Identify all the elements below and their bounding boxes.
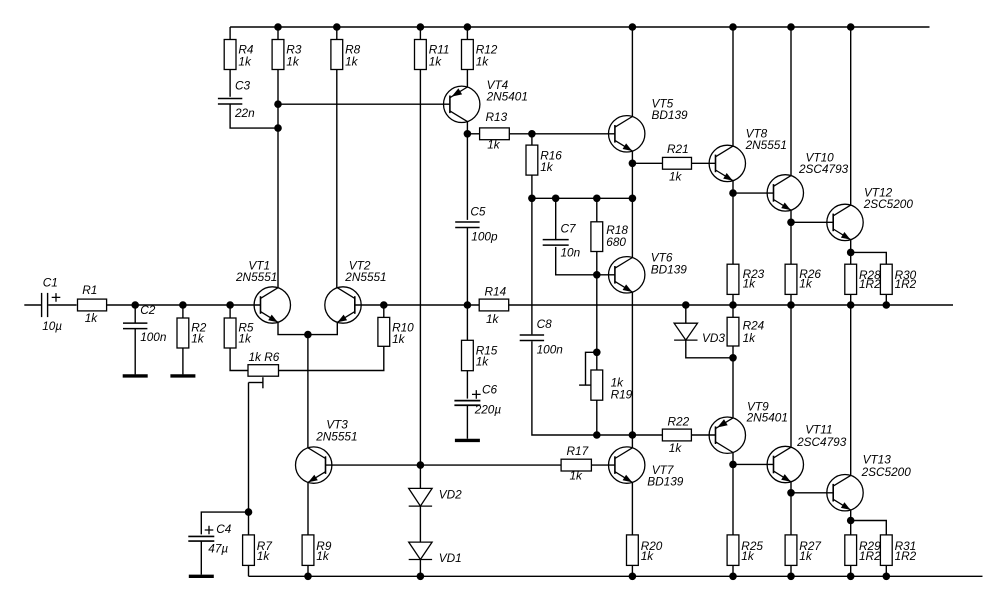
svg-text:2SC5200: 2SC5200 [861,465,912,479]
node VT8 emitter junction [729,189,737,197]
wire [277,27,279,40]
resistor R31 [880,535,916,566]
svg-text:2SC4793: 2SC4793 [798,162,849,176]
node bottom rail R27 [787,573,795,581]
svg-text:1R2: 1R2 [859,277,881,291]
wire [692,162,716,164]
diode VD1 [409,542,462,565]
node bottom rail R20 [629,573,637,581]
node VT5 emitter junction [629,160,637,168]
svg-text:1k: 1k [540,160,554,174]
wire VT8 emitter [732,181,734,193]
wire [531,198,533,334]
wire [732,305,734,317]
resistor R2 [177,318,207,348]
node C2 junction [131,301,139,309]
resistor R22 [662,414,691,455]
resistor R25 [727,535,763,566]
svg-text:1k: 1k [487,137,501,151]
capacitor C7 [543,222,581,260]
svg-text:R19: R19 [611,388,633,402]
wire [732,294,734,305]
resistor R24 [727,317,765,346]
resistor R23 [727,264,765,294]
wire bias rail [532,197,633,199]
svg-text:1k: 1k [238,332,252,346]
wire R19 wiper [586,352,597,385]
node bottom rail R9 [304,573,312,581]
resistor R7 [243,535,273,566]
wire [850,252,852,264]
node bottom rail R31 [883,573,891,581]
wire VT4 base [278,103,450,105]
svg-text:1k: 1k [257,549,271,563]
svg-text:1k: 1k [641,549,655,563]
wire [229,70,231,97]
wire VT3 emitter [307,482,309,535]
node top rail VT10 [787,23,795,31]
node VD2 junction [417,461,425,469]
svg-text:1k R6: 1k R6 [249,350,280,364]
wire to R30 [851,252,887,264]
resistor R13 [480,110,510,151]
node top rail VT8 [729,23,737,31]
wire [790,222,792,264]
svg-text:100n: 100n [140,330,167,344]
wire [182,305,184,318]
svg-text:680: 680 [606,235,626,249]
svg-text:1k: 1k [238,55,252,69]
node VT13 emitter junction [847,517,855,525]
resistor R20 [627,535,663,566]
node mid rail R30 [883,301,891,309]
svg-text:10µ: 10µ [42,319,62,333]
resistor R26 [785,264,821,294]
wire VT10 collector [790,27,792,176]
transistor VT12 2SC5200 [827,185,914,240]
svg-text:1k: 1k [476,55,490,69]
resistor R1 [78,283,107,325]
wire VT1 emitter [278,322,308,334]
resistor R17 [561,444,591,483]
wire [790,294,792,305]
wire R6 to R10 [279,346,384,370]
svg-text:1k: 1k [392,332,406,346]
node top rail VT5 [629,23,637,31]
node mid rail C5/R15 [464,301,472,309]
resistor R21 [663,142,692,184]
resistor R19 [591,370,633,402]
node R16 top junction [528,130,536,138]
svg-text:1k: 1k [85,311,99,325]
svg-text:C8: C8 [537,317,553,331]
capacitor C4 [188,522,231,556]
wire VT2 base [355,304,384,306]
wire [466,134,468,220]
wire [230,348,248,371]
wire to VT3 collector [307,335,309,449]
wire [885,565,887,576]
wire [596,198,598,222]
transistor VT11 2SC4793 [767,423,847,483]
wire [732,464,734,535]
wire [419,560,421,577]
svg-text:C6: C6 [482,382,498,396]
wire output rail [509,304,953,306]
wire top supply rail [230,26,929,28]
wire VT7 collector [631,435,633,448]
capacitor C8 [520,317,564,357]
node bias wire R19 [593,431,601,439]
capacitor C5 [455,204,498,243]
wire VT6 emitter to VT7 collector [631,292,633,435]
ground [189,575,214,578]
svg-text:R22: R22 [668,414,690,428]
svg-text:1k: 1k [799,277,813,291]
svg-text:C5: C5 [470,204,486,218]
svg-text:VD1: VD1 [439,551,462,565]
wire [531,175,533,198]
wire [466,371,468,399]
wire output rail [384,304,479,306]
wire VT12 base [791,221,833,223]
svg-text:C1: C1 [43,275,58,289]
node bias wire VT6-VT7 [629,431,637,439]
wire [591,464,615,466]
wire [732,565,734,576]
wire [248,512,250,535]
wire [691,434,715,436]
svg-text:47µ: 47µ [208,541,228,555]
svg-text:C7: C7 [561,222,577,236]
wire [685,305,687,323]
svg-text:1R2: 1R2 [859,549,881,563]
node R5 junction [226,301,234,309]
resistor R4 [224,40,254,70]
svg-text:2SC4793: 2SC4793 [796,435,847,449]
svg-text:1k: 1k [286,55,300,69]
wire [531,134,533,145]
node bias rail R16 [528,195,536,203]
ground [455,439,480,442]
svg-text:C3: C3 [235,78,251,92]
resistor R27 [785,535,821,566]
wire [555,198,557,240]
svg-text:1k: 1k [191,332,205,346]
wire VT7 emitter [631,482,633,535]
wire input to VT1 base [107,304,261,306]
wire VT9 collector [732,358,734,418]
node top rail R8 [333,23,341,31]
resistor R14 [479,284,509,326]
diode VD3 [674,323,725,345]
wire VT1 collector [277,70,279,288]
wire [229,27,231,40]
wire [596,275,598,353]
wire [134,328,136,374]
resistor R16 [526,145,562,175]
wire VT2 emitter [308,322,337,334]
wire [336,27,338,40]
wire R6 wiper contact [262,377,264,388]
wire [466,405,468,438]
transistor VT9 2N5401 [709,400,788,454]
svg-text:1R2: 1R2 [895,549,917,563]
svg-text:R14: R14 [485,284,507,298]
wire R6 wiper down [248,383,250,513]
svg-text:BD139: BD139 [652,108,689,122]
node top rail R12 [464,23,472,31]
svg-text:R17: R17 [567,444,589,458]
wire diode chain [419,70,421,489]
svg-text:2N5551: 2N5551 [235,270,277,284]
transistor VT7 BD139 [609,447,684,489]
node bias rail C7 [552,195,560,203]
wire [509,133,615,135]
wire [850,294,852,305]
wire VT11 collector [790,305,792,447]
wire [732,346,734,358]
wire [790,565,792,576]
svg-text:220µ: 220µ [474,403,502,417]
svg-text:1R2: 1R2 [895,277,917,291]
node VT1-VT2 emitter junction [304,331,312,339]
transistor VT5 BD139 [609,97,689,152]
node VT2 base junction [380,301,388,309]
svg-text:R21: R21 [667,142,689,156]
wire VT5 emitter to VT6 collector [631,163,633,257]
wire input line [24,304,41,306]
wire [686,340,733,358]
svg-text:BD139: BD139 [647,475,684,489]
svg-text:2SC5200: 2SC5200 [863,197,914,211]
wire [732,193,734,264]
svg-text:2N5551: 2N5551 [315,429,357,443]
svg-text:1k: 1k [486,312,500,326]
wire bottom supply rail [249,575,983,577]
transistor VT10 2SC4793 [767,150,849,211]
node C4-R7 junction [245,508,253,516]
svg-text:C4: C4 [216,522,232,536]
wire VT3 base [326,464,562,466]
resistor R18 [591,222,628,252]
svg-text:1k: 1k [316,549,330,563]
wire VT5 emitter [631,151,633,163]
wire [419,27,421,40]
wire [48,304,76,306]
wire [419,506,421,542]
ground [123,374,148,377]
capacitor C2 [123,303,167,344]
wire [596,400,598,435]
node VT10 emitter junction [787,219,795,227]
svg-text:R1: R1 [82,283,97,297]
svg-text:1k: 1k [743,277,757,291]
node bottom rail R25 [729,573,737,581]
wire VT13 emitter [850,510,852,521]
transistor VT8 2N5551 [709,127,787,182]
node VT12 emitter junction [847,249,855,257]
wire VT4 collector [466,122,468,134]
resistor R11 [415,40,450,70]
transistor VT3 2N5551 [296,418,358,484]
node bias rail VT5-VT6 [629,195,637,203]
wire [466,305,468,340]
wire [850,565,852,576]
capacitor C1 [42,275,63,333]
svg-text:1k: 1k [741,549,755,563]
wire [631,565,633,576]
transistor VT13 2SC5200 [827,453,911,511]
node mid rail VT11 [787,301,795,309]
wire [466,27,468,40]
svg-text:1k: 1k [345,55,359,69]
svg-text:1k: 1k [669,170,683,184]
node VT11 emitter junction [787,489,795,497]
wire VT10 emitter [790,210,792,222]
resistor R5 [224,318,254,348]
svg-text:10n: 10n [561,246,581,260]
svg-text:2N5401: 2N5401 [486,89,528,103]
node VT4 base junction [274,100,282,108]
node mid rail VT13 [847,301,855,309]
svg-text:BD139: BD139 [651,263,688,277]
svg-text:22n: 22n [234,106,255,120]
svg-text:R13: R13 [486,110,508,124]
wire [466,228,468,306]
node mid rail R23-R24 [729,301,737,309]
wire VT6 base [597,274,615,276]
resistor R3 [272,40,302,70]
wire [307,565,309,576]
wire [134,305,136,323]
wire VT12 collector [850,27,852,205]
transistor VT6 BD139 [609,250,688,293]
wire [596,352,598,370]
wire [556,247,597,275]
svg-text:100p: 100p [471,229,498,243]
svg-text:VD2: VD2 [439,488,462,502]
resistor R30 [880,264,916,294]
wire [632,162,662,164]
resistor R9 [302,535,332,566]
node VT9 emitter junction [729,461,737,469]
node VT6 base junction [593,271,601,279]
svg-text:C2: C2 [140,303,156,317]
svg-text:1k: 1k [429,55,443,69]
svg-text:1k: 1k [476,355,490,369]
transistor VT2 2N5551 [325,258,387,323]
wire [850,521,852,535]
node R19 wiper junction [593,349,601,357]
resistor R28 [845,264,881,294]
wire VT2 collector [336,70,338,288]
node bottom rail R29 [847,573,855,581]
svg-text:2N5401: 2N5401 [746,411,788,425]
svg-text:1k: 1k [743,331,757,345]
wire VT10 base [733,192,774,194]
node top rail VT12 [847,23,855,31]
wire VT9 emitter [732,453,734,465]
node bottom rail VD1 [417,573,425,581]
diode VD2 [409,488,462,507]
node R2 junction [179,301,187,309]
wire [596,252,598,275]
node C3-R3 junction [274,124,282,132]
svg-text:1k: 1k [570,469,584,483]
wire to R31 [851,521,887,535]
node VT9 collector junction [729,354,737,362]
wire [230,104,278,128]
wire [248,565,250,576]
wire [182,348,184,374]
svg-text:VD3: VD3 [702,331,725,345]
resistor R15 [462,340,498,370]
node top rail R11 [417,23,425,31]
wire [532,341,663,435]
capacitor C6 [454,382,501,416]
ground [170,374,195,377]
wire R6 wiper bar [249,382,263,384]
node bias rail R18 [593,195,601,203]
wire [200,541,202,574]
node mid rail VD3 [682,301,690,309]
wire VT5 collector [631,27,633,117]
wire [467,133,479,135]
wire [885,294,887,305]
resistor R12 [462,40,498,70]
wire VT13 collector [850,305,852,475]
transistor VT4 2N5401 [444,78,528,123]
node VT4 collector junction [464,130,472,138]
wire VT11 emitter [790,482,792,493]
resistor R6 trimmer [248,350,280,376]
resistor R10 [378,317,414,346]
wire VT12 emitter [850,240,852,253]
wire VT8 collector [732,27,734,146]
wire [790,493,792,535]
svg-text:2N5551: 2N5551 [344,270,386,284]
wire R19 wiper contact [579,384,591,386]
wire VT4 emitter [466,70,468,88]
capacitor C3 [218,78,255,120]
resistor R8 [331,40,361,70]
svg-text:1k: 1k [799,549,813,563]
wire [383,305,385,317]
svg-text:2N5551: 2N5551 [745,138,787,152]
svg-text:1k: 1k [669,441,683,455]
wire to C4 [201,512,248,534]
resistor R29 [845,535,881,566]
wire VT11 base [733,463,774,465]
transistor VT1 2N5551 [235,258,291,323]
wire VT13 base [791,492,833,494]
node top rail R3 [274,23,282,31]
wire [229,305,231,318]
svg-text:100n: 100n [537,343,564,357]
